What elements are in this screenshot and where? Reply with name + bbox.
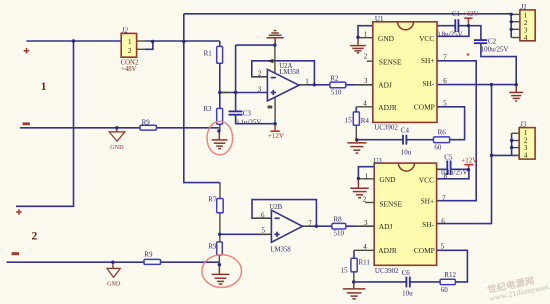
svg-text:+12V: +12V [268,132,284,140]
svg-text:UC3902: UC3902 [375,267,399,275]
svg-text:C4: C4 [401,127,410,135]
svg-text:UC3902: UC3902 [374,124,398,132]
svg-text:+12V: +12V [463,10,479,18]
svg-text:4: 4 [363,243,367,251]
svg-text:R1: R1 [204,50,213,58]
svg-text:2: 2 [363,195,367,203]
svg-text:C6: C6 [402,269,411,277]
svg-text:R11: R11 [359,259,371,267]
svg-text:1: 1 [305,77,309,85]
svg-text:0.1u/25V: 0.1u/25V [235,118,261,126]
svg-text:LM358: LM358 [279,69,300,76]
svg-text:100u/25V: 100u/25V [481,46,509,54]
svg-text:60: 60 [434,143,442,151]
svg-text:15: 15 [345,116,353,124]
svg-text:ADJ: ADJ [378,80,392,89]
svg-text:15: 15 [341,267,349,275]
svg-text:3: 3 [364,219,368,227]
svg-text:+12V: +12V [461,156,477,164]
svg-text:R9: R9 [144,251,153,259]
svg-text:7: 7 [308,220,312,228]
svg-text:R2: R2 [330,74,339,82]
svg-text:2: 2 [258,70,262,78]
svg-text:3: 3 [524,144,528,152]
svg-text:5: 5 [443,99,447,107]
svg-text:GND: GND [378,34,395,43]
svg-text:5: 5 [262,226,266,234]
svg-text:R9: R9 [208,242,217,250]
svg-text:6: 6 [443,77,447,85]
svg-text:4: 4 [524,152,528,160]
svg-text:10u: 10u [401,148,412,156]
svg-text:1: 1 [41,81,47,93]
svg-text:SH+: SH+ [421,196,435,205]
svg-text:3: 3 [364,77,368,85]
svg-text:U2B: U2B [269,204,282,211]
svg-text:7: 7 [442,194,446,202]
svg-text:GND: GND [107,280,121,287]
svg-text:0.8u/25V: 0.8u/25V [436,31,462,39]
svg-text:510: 510 [334,229,345,237]
svg-text:U1: U1 [375,15,384,23]
svg-text:SH-: SH- [422,220,434,229]
svg-text:5: 5 [441,243,445,251]
svg-text:LM358: LM358 [270,247,291,254]
svg-text:C2: C2 [488,37,497,45]
svg-text:U3: U3 [373,157,382,165]
svg-text:R9: R9 [142,118,151,126]
svg-text:2: 2 [364,53,368,61]
svg-text:GND: GND [110,144,124,151]
svg-text:R4: R4 [361,117,370,125]
svg-text:R12: R12 [444,271,456,279]
svg-text:6: 6 [441,217,445,225]
svg-text:1: 1 [364,30,368,38]
svg-text:1: 1 [365,172,369,180]
svg-text:3: 3 [258,86,262,94]
svg-text:VCC: VCC [419,175,434,184]
svg-text:J2: J2 [121,27,128,35]
svg-text:510: 510 [331,88,342,96]
svg-text:R3: R3 [203,105,212,113]
svg-text:COMP: COMP [414,102,435,111]
svg-text:J3: J3 [520,120,527,128]
svg-text:SH+: SH+ [421,56,435,65]
svg-text:6: 6 [261,211,265,219]
svg-text:SH-: SH- [422,79,434,88]
svg-text:C5: C5 [444,153,453,161]
svg-text:0.1u/25V: 0.1u/25V [441,168,467,176]
svg-text:60: 60 [441,286,449,294]
svg-text:4: 4 [524,34,528,42]
svg-text:R8: R8 [334,215,343,223]
svg-text:2: 2 [128,47,132,55]
svg-text:ADJR: ADJR [378,103,397,112]
svg-text:SENSE: SENSE [379,57,402,66]
svg-text:J1: J1 [520,3,527,11]
svg-text:R6: R6 [438,129,447,137]
svg-text:4: 4 [363,99,367,107]
svg-text:10u: 10u [402,290,413,298]
svg-text:SENSE: SENSE [379,199,402,208]
svg-text:VCC: VCC [419,34,434,43]
svg-text:ADJR: ADJR [378,246,397,255]
svg-text:COMP: COMP [414,246,435,255]
svg-text:1: 1 [128,38,132,46]
svg-text:2: 2 [32,231,38,243]
svg-text:+48V: +48V [121,66,137,73]
svg-text:C3: C3 [243,110,252,118]
svg-text:C1: C1 [452,10,461,18]
svg-text:7: 7 [443,53,447,61]
svg-text:GND: GND [379,175,396,184]
svg-text:ADJ: ADJ [379,222,393,231]
svg-text:R7: R7 [208,196,217,204]
